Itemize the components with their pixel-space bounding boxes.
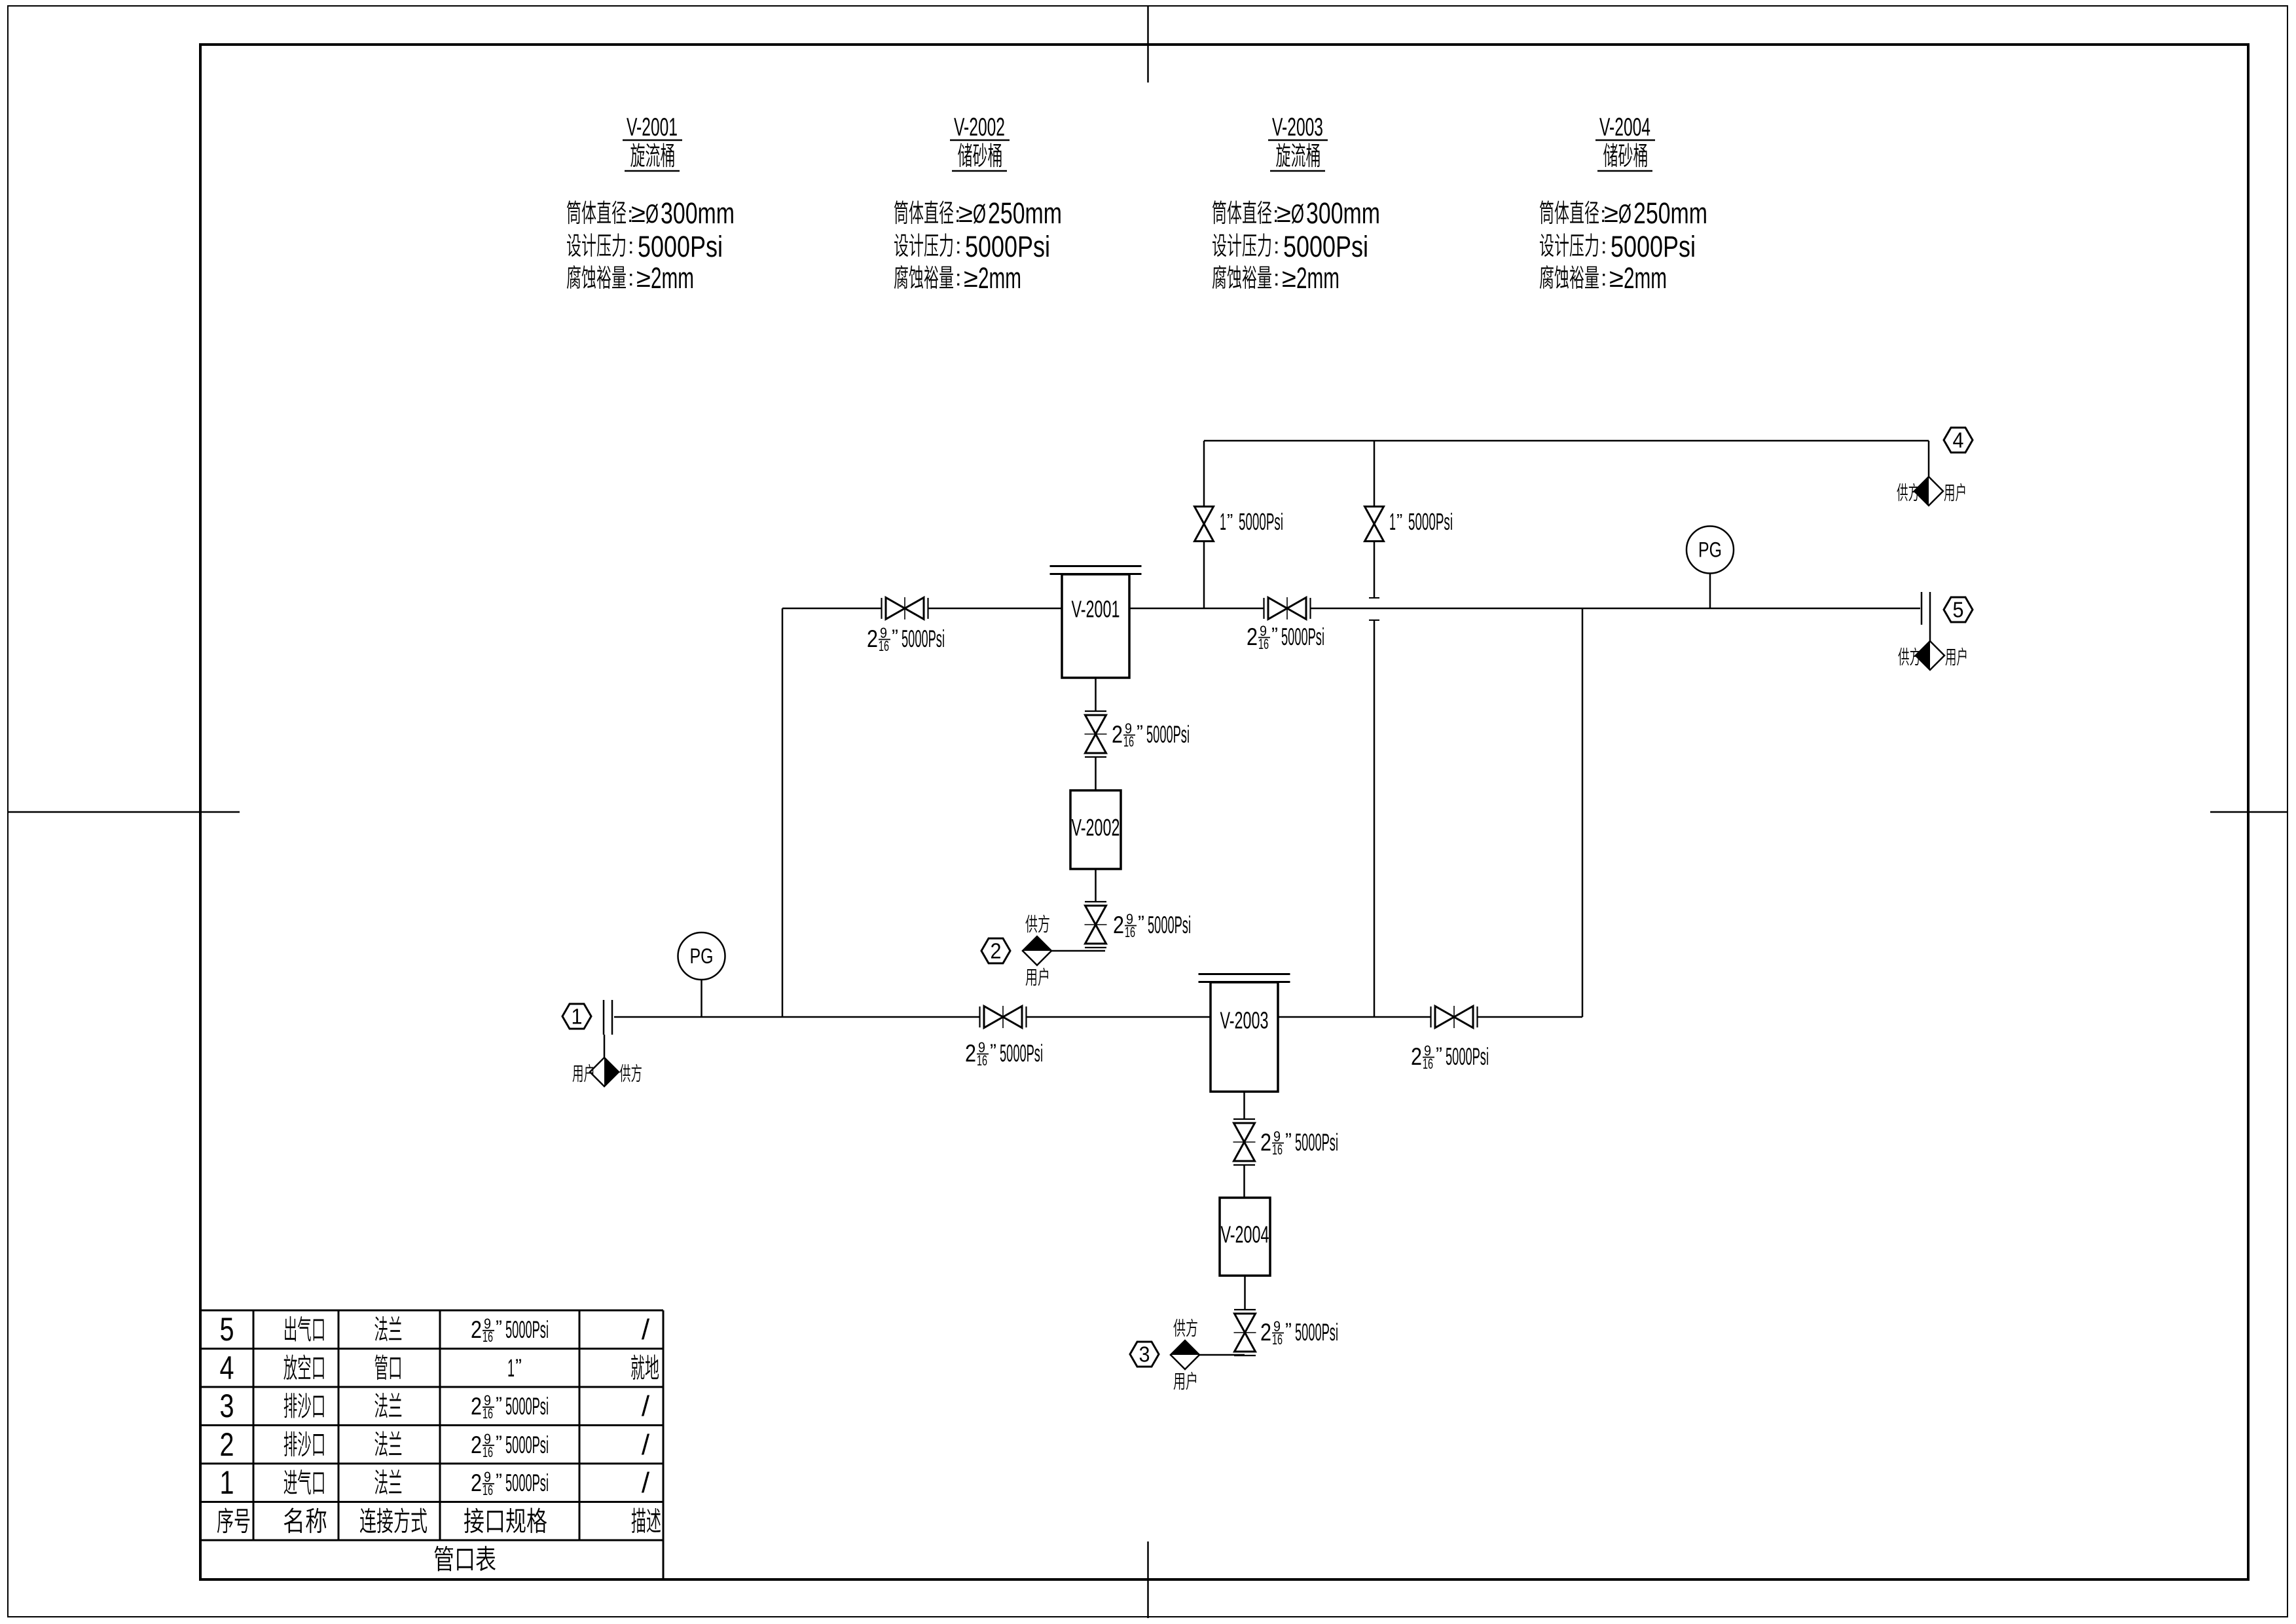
svg-text:”: ” — [1285, 1319, 1292, 1341]
svg-text:300mm: 300mm — [1306, 196, 1380, 230]
svg-text:4: 4 — [220, 1350, 234, 1386]
svg-text:≥: ≥ — [1277, 199, 1291, 228]
svg-text:2mm: 2mm — [1296, 261, 1339, 295]
svg-text:”: ” — [1271, 624, 1278, 646]
svg-text:16: 16 — [1125, 924, 1135, 940]
svg-text:5000Psi: 5000Psi — [1295, 1129, 1338, 1156]
svg-text:”: ” — [515, 1356, 522, 1377]
svg-text:5000Psi: 5000Psi — [505, 1469, 549, 1496]
svg-text:/: / — [642, 1314, 650, 1346]
svg-text:5000Psi: 5000Psi — [1611, 230, 1696, 263]
svg-text:Ø: Ø — [1618, 200, 1631, 229]
svg-text:16: 16 — [977, 1052, 987, 1069]
svg-text:16: 16 — [483, 1482, 493, 1498]
svg-text:2: 2 — [1113, 912, 1124, 938]
svg-text:1: 1 — [507, 1355, 515, 1382]
svg-text:PG: PG — [690, 944, 714, 968]
svg-text:V-2004: V-2004 — [1221, 1221, 1269, 1248]
svg-text:2: 2 — [991, 939, 1002, 963]
svg-text:2: 2 — [471, 1469, 482, 1496]
svg-text:5000Psi: 5000Psi — [1283, 230, 1368, 263]
svg-text:5000Psi: 5000Psi — [638, 230, 723, 263]
svg-text:5000Psi: 5000Psi — [1148, 912, 1191, 938]
svg-text:1: 1 — [1389, 508, 1396, 535]
svg-text:16: 16 — [1272, 1331, 1283, 1348]
svg-text:”: ” — [1137, 722, 1143, 743]
svg-text:5000Psi: 5000Psi — [1281, 623, 1324, 650]
svg-text:250mm: 250mm — [1633, 196, 1707, 230]
svg-text:16: 16 — [483, 1329, 493, 1345]
svg-text:16: 16 — [483, 1405, 493, 1422]
svg-text:”: ” — [1227, 510, 1233, 530]
svg-text:2: 2 — [471, 1393, 482, 1420]
svg-text:3: 3 — [220, 1388, 234, 1424]
svg-text:≥: ≥ — [1282, 264, 1296, 293]
svg-text:5: 5 — [220, 1311, 234, 1348]
svg-text:Ø: Ø — [646, 200, 659, 229]
svg-text:16: 16 — [879, 638, 889, 654]
svg-text:2: 2 — [220, 1426, 234, 1463]
svg-text:”: ” — [496, 1317, 502, 1338]
svg-text:≥: ≥ — [1609, 264, 1624, 293]
svg-text:1: 1 — [572, 1005, 583, 1029]
svg-text:3: 3 — [1139, 1342, 1150, 1367]
svg-text:2mm: 2mm — [978, 261, 1021, 295]
svg-text::: : — [628, 266, 634, 291]
svg-text:/: / — [642, 1467, 650, 1499]
svg-text::: : — [1601, 234, 1607, 259]
svg-text:2: 2 — [1260, 1319, 1271, 1346]
svg-text:250mm: 250mm — [988, 196, 1062, 230]
svg-text:5000Psi: 5000Psi — [965, 230, 1050, 263]
svg-text:2: 2 — [1247, 623, 1258, 650]
svg-text:4: 4 — [1953, 428, 1964, 452]
svg-text:16: 16 — [483, 1444, 493, 1460]
svg-text:2mm: 2mm — [651, 261, 694, 295]
svg-text:5000Psi: 5000Psi — [505, 1393, 549, 1420]
svg-text:”: ” — [496, 1470, 502, 1492]
svg-text:5000Psi: 5000Psi — [1000, 1040, 1043, 1067]
svg-text:16: 16 — [1423, 1056, 1433, 1072]
svg-text:PG: PG — [1698, 538, 1722, 562]
svg-text:≥: ≥ — [631, 199, 646, 228]
svg-text:5000Psi: 5000Psi — [902, 625, 945, 652]
svg-text:5000Psi: 5000Psi — [1446, 1043, 1489, 1070]
svg-text:”: ” — [1285, 1130, 1292, 1151]
svg-text:2: 2 — [471, 1316, 482, 1343]
svg-text:2mm: 2mm — [1624, 261, 1667, 295]
svg-text:1: 1 — [220, 1464, 234, 1501]
svg-text:”: ” — [1396, 510, 1402, 530]
svg-text:1: 1 — [1220, 508, 1226, 535]
svg-text:”: ” — [990, 1041, 996, 1062]
svg-text::: : — [1273, 234, 1279, 259]
svg-text:2: 2 — [1260, 1129, 1271, 1156]
svg-text:/: / — [642, 1390, 650, 1422]
svg-text:V-2004: V-2004 — [1599, 113, 1650, 141]
svg-text:5000Psi: 5000Psi — [1146, 721, 1190, 748]
svg-text:≥: ≥ — [964, 264, 978, 293]
svg-text:5000Psi: 5000Psi — [1239, 508, 1283, 535]
svg-text::: : — [955, 266, 961, 291]
svg-text:300mm: 300mm — [661, 196, 735, 230]
svg-text:≥: ≥ — [1604, 199, 1618, 228]
svg-text::: : — [1601, 266, 1607, 291]
svg-text:≥: ≥ — [636, 264, 651, 293]
svg-text:2: 2 — [471, 1431, 482, 1458]
svg-text:2: 2 — [867, 625, 878, 652]
svg-text::: : — [955, 234, 961, 259]
svg-text:16: 16 — [1272, 1141, 1283, 1158]
svg-text::: : — [1273, 266, 1279, 291]
svg-text:5000Psi: 5000Psi — [1408, 508, 1453, 535]
svg-text:2: 2 — [1411, 1043, 1422, 1070]
svg-text:2: 2 — [965, 1040, 976, 1067]
svg-text:V-2001: V-2001 — [1072, 596, 1120, 623]
svg-text:Ø: Ø — [973, 200, 986, 229]
svg-text:5000Psi: 5000Psi — [505, 1316, 549, 1343]
svg-text:5000Psi: 5000Psi — [505, 1431, 549, 1458]
svg-text:5: 5 — [1953, 598, 1964, 622]
svg-text::: : — [628, 234, 634, 259]
svg-text:V-2003: V-2003 — [1220, 1007, 1269, 1034]
svg-text:”: ” — [1138, 912, 1144, 934]
svg-text:”: ” — [1436, 1044, 1442, 1065]
svg-text:”: ” — [496, 1432, 502, 1454]
svg-text:V-2002: V-2002 — [954, 113, 1005, 141]
svg-text:V-2002: V-2002 — [1072, 814, 1120, 841]
svg-text:16: 16 — [1123, 733, 1134, 750]
svg-text:”: ” — [496, 1393, 502, 1415]
svg-text:16: 16 — [1258, 636, 1269, 652]
svg-text:/: / — [642, 1429, 650, 1461]
svg-text:”: ” — [892, 626, 898, 648]
svg-text:V-2003: V-2003 — [1272, 113, 1323, 141]
svg-text:2: 2 — [1112, 721, 1123, 748]
svg-text:Ø: Ø — [1291, 200, 1304, 229]
svg-text:≥: ≥ — [958, 199, 973, 228]
svg-text:5000Psi: 5000Psi — [1295, 1319, 1338, 1346]
svg-text:V-2001: V-2001 — [627, 113, 678, 141]
